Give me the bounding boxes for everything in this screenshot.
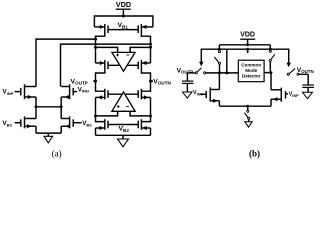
transistor M4 source lead	[141, 62, 150, 64]
transistor MB3R drain lead	[61, 118, 69, 120]
svg-text:VINP: VINP	[289, 92, 299, 98]
node dot wireB-left	[94, 46, 97, 49]
wire S3 to gnd	[248, 119, 250, 121]
transistor M8 source lead	[141, 127, 150, 129]
wire tail join	[36, 106, 61, 108]
wire B right	[130, 47, 150, 52]
VDD supply bar (b)	[240, 38, 255, 40]
capacitor CL	[182, 80, 194, 82]
transistor M2 drain wire	[141, 35, 150, 64]
node dot VDD-rail (a)	[122, 15, 125, 18]
ground symbol (a main)	[118, 139, 129, 147]
node dot VOUTP	[94, 80, 97, 83]
ground symbol input pair	[44, 136, 53, 143]
transistor M6 source lead	[141, 96, 150, 98]
switch S3 tail	[247, 110, 249, 112]
arrow to VOUTN switch	[287, 63, 291, 68]
wire ground rail (a)	[96, 134, 151, 136]
switch S2R	[287, 73, 289, 75]
transistor MB3L gate wire	[15, 122, 21, 124]
node dot tail (b)	[246, 105, 249, 108]
node dot wireA-right	[149, 43, 152, 46]
svg-text:VOUTP: VOUTP	[71, 78, 88, 85]
svg-text:VDD: VDD	[116, 0, 131, 9]
transistor M1 drain wire	[96, 35, 105, 64]
transistor MB3R gate wire	[73, 122, 81, 124]
transistor M1 channel+gate	[104, 24, 106, 35]
node dot bus-right-rail	[269, 48, 272, 51]
svg-text:VB1: VB1	[118, 22, 129, 29]
switch S2L	[195, 72, 197, 74]
wire top rail (b)	[219, 44, 270, 46]
wire VOUTP to box	[206, 72, 239, 74]
transistor M5 channel+gate	[104, 89, 106, 100]
svg-text:VINN: VINN	[193, 90, 203, 96]
node dot VOUTN	[149, 80, 152, 83]
wire row2 gate wire	[108, 64, 138, 66]
wire S1L to node	[219, 64, 221, 73]
svg-text:VOUTN: VOUTN	[153, 78, 171, 85]
node dot tail-left	[35, 105, 38, 108]
transistor M3 drain wire	[96, 71, 105, 82]
svg-text:VINP: VINP	[2, 89, 13, 96]
wire feedback inner (wireA)	[61, 44, 151, 86]
transistor M4 drain wire	[141, 71, 150, 82]
wire top rail (a)	[94, 16, 152, 27]
transistor M8 drain wire	[141, 116, 150, 122]
VDD supply bar (a)	[116, 8, 131, 10]
wire S1R to node	[269, 62, 271, 73]
transistor M1 source lead	[94, 26, 104, 28]
transistor M4 channel+gate	[140, 60, 142, 71]
transistor M3 source lead	[96, 62, 105, 64]
svg-text:(b): (b)	[249, 148, 260, 158]
wire feedback outer	[36, 39, 96, 86]
transistor M2 channel+gate	[140, 24, 142, 35]
transistor M5 source lead	[96, 96, 105, 98]
common mode detector box	[238, 60, 264, 81]
wire rail elbow right (b)	[269, 45, 271, 51]
node dot box-right-col	[269, 71, 272, 74]
floating source A1 (triangle down)	[112, 52, 135, 71]
transistor M7 channel+gate	[104, 119, 106, 130]
transistor MINNb gate wire	[200, 93, 206, 95]
wire VB2 gate wire	[108, 124, 138, 126]
wire ground stub (a)	[122, 135, 124, 139]
transistor MB3L source lead	[25, 125, 37, 127]
wire B left	[96, 47, 118, 52]
wire VDD stub (b)	[247, 39, 249, 45]
wire tail drop right	[60, 107, 62, 119]
transistor MINPb channel+gate	[280, 88, 282, 102]
transistor M3 channel+gate	[104, 60, 106, 71]
wire VDD stub lower (b)	[247, 49, 249, 53]
node dot wireB-right	[149, 46, 152, 49]
wire row3 gate wire	[108, 93, 138, 95]
ground symbol CR	[303, 92, 313, 98]
wire VB1 gate wire	[108, 29, 138, 31]
wire tail drop left	[35, 107, 37, 119]
floating source A2 (triangle up)	[112, 92, 135, 111]
transistor MINP source lead	[25, 96, 37, 98]
svg-text:Common: Common	[241, 63, 261, 68]
switch S1R	[269, 50, 271, 52]
ground symbol tail (b)	[245, 122, 253, 127]
node dot tail-right	[60, 105, 63, 108]
transistor MINP drain lead	[25, 86, 37, 88]
transistor M7 drain wire	[96, 116, 105, 122]
transistor MINPb drain lead	[271, 89, 281, 91]
node dot VDD-rail (b)	[246, 43, 249, 46]
node dot VOUTP-col	[218, 71, 221, 74]
wire ground rail input	[36, 132, 61, 134]
ground symbol CL	[183, 92, 192, 98]
node dot bus-drop-join	[225, 71, 228, 74]
wire bus drop inner-left	[226, 49, 228, 73]
transistor MINNb drain lead	[210, 89, 219, 91]
wire VOUTN node	[299, 73, 308, 75]
capacitor CR	[302, 84, 314, 86]
transistor MB3L channel+gate	[24, 116, 26, 128]
transistor M6 channel+gate	[140, 89, 142, 100]
node dot bus-center	[246, 48, 249, 51]
node dot feedback-outer	[94, 38, 97, 41]
node dot wireC-right	[149, 114, 152, 117]
wire box right to column	[264, 72, 271, 74]
transistor MINPb source lead	[271, 98, 281, 100]
wire VOUTP node	[187, 72, 195, 74]
transistor MINNb channel+gate	[209, 87, 211, 101]
transistor MINPb gate wire	[286, 93, 289, 95]
wire C right	[130, 111, 150, 116]
wire VDD stub (a)	[122, 9, 124, 16]
transistor M5 drain wire	[96, 81, 105, 91]
transistor MINN gate wire	[73, 91, 77, 93]
wire C left	[96, 111, 118, 116]
transistor MB3L drain lead	[25, 118, 37, 120]
node dot bus-left-rail	[218, 48, 221, 51]
wire cap drop left	[186, 73, 188, 81]
transistor MINNb source lead	[210, 100, 219, 102]
svg-text:VB3: VB3	[2, 120, 12, 127]
transistor MINN source lead	[61, 96, 69, 98]
transistor M7 source lead	[96, 127, 105, 129]
transistor MINP gate wire	[15, 91, 21, 93]
transistor M2 source lead	[141, 26, 153, 28]
wire rail elbow left (b)	[218, 45, 220, 50]
transistor MINN channel+gate	[69, 84, 71, 99]
switch S1L	[218, 51, 220, 53]
transistor MINP channel+gate	[24, 84, 26, 99]
wire tail stub	[247, 106, 249, 110]
transistor M6 drain wire	[141, 81, 150, 91]
svg-text:VB3: VB3	[82, 120, 92, 127]
node dot wireC-left	[94, 114, 97, 117]
svg-text:VINN: VINN	[78, 86, 89, 93]
svg-text:Mode: Mode	[245, 68, 257, 73]
transistor MB3R channel+gate	[69, 116, 71, 128]
svg-text:VDD: VDD	[240, 32, 255, 39]
svg-text:Detector: Detector	[242, 73, 261, 78]
transistor M8 channel+gate	[140, 119, 142, 130]
wire tail (b)	[219, 105, 271, 107]
svg-text:(a): (a)	[52, 148, 62, 158]
svg-text:VOUTN: VOUTN	[297, 67, 314, 74]
svg-text:VB2: VB2	[119, 126, 130, 133]
transistor MINN drain lead	[61, 86, 69, 88]
wire ground stub input	[47, 133, 49, 136]
arrow to VOUTP switch	[199, 62, 203, 67]
wire precharge bus	[201, 49, 288, 62]
transistor MB3R source lead	[61, 125, 69, 127]
